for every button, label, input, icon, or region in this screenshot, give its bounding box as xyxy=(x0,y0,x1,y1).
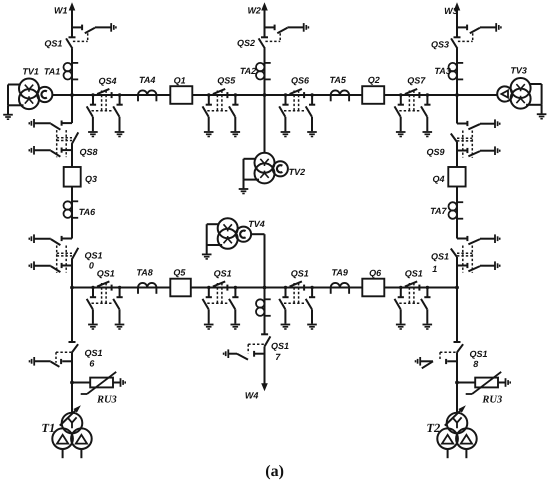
svg-text:QS1: QS1 xyxy=(214,269,232,279)
svg-text:QS1: QS1 xyxy=(97,269,115,279)
current transformer TA9 xyxy=(331,283,349,294)
svg-text:TV4: TV4 xyxy=(248,219,265,229)
svg-text:Q2: Q2 xyxy=(368,75,380,85)
svg-text:TA5: TA5 xyxy=(330,75,347,85)
disconnector QS16 xyxy=(69,342,79,352)
current transformer TA2 xyxy=(256,63,271,80)
svg-text:QS3: QS3 xyxy=(431,40,449,50)
svg-text:TA3: TA3 xyxy=(434,66,450,76)
disconnector QS8 with twin earthing switches xyxy=(29,119,78,157)
current transformer TA8 xyxy=(138,283,156,294)
feeder W2 arrow xyxy=(261,2,268,37)
svg-text:RU3: RU3 xyxy=(96,395,117,406)
disconnector QS10 with twin earthing switches xyxy=(29,234,78,272)
earthing switch branch of QS3 xyxy=(457,23,501,33)
disconnector QS11 with twin earthing switches xyxy=(451,234,500,272)
power transformer T1 xyxy=(52,405,91,458)
left column wire W1 xyxy=(71,49,73,413)
junction left column/bottom bus xyxy=(70,286,74,290)
svg-text:RU3: RU3 xyxy=(481,394,502,405)
svg-text:QS1: QS1 xyxy=(470,349,488,359)
svg-text:TA9: TA9 xyxy=(332,268,348,278)
circuit breaker Q4 xyxy=(448,167,465,187)
right column wire W3 xyxy=(456,48,458,413)
feeder W3 arrow xyxy=(454,2,461,37)
svg-text:TA2: TA2 xyxy=(240,66,256,76)
earthing switch of QS16 xyxy=(30,352,73,367)
current transformer TA5 xyxy=(331,90,349,101)
svg-text:QS1: QS1 xyxy=(271,341,289,351)
surge arrester RU3 (left) branch wire xyxy=(70,381,90,385)
svg-text:TA1: TA1 xyxy=(44,66,60,76)
svg-text:Q4: Q4 xyxy=(432,174,444,184)
current transformer TA7 xyxy=(449,202,464,219)
TV4 to W4 column wire xyxy=(251,234,264,385)
voltage transformer TV4 xyxy=(202,218,251,259)
surge arrester RU3 (right) xyxy=(466,372,511,394)
svg-text:TA6: TA6 xyxy=(79,207,96,217)
svg-text:QS1: QS1 xyxy=(44,38,62,48)
center column wire W2 xyxy=(264,48,266,152)
svg-text:W2: W2 xyxy=(247,6,261,16)
svg-text:QS8: QS8 xyxy=(80,147,98,157)
svg-text:1: 1 xyxy=(432,264,437,274)
svg-text:Q3: Q3 xyxy=(85,174,97,184)
earthing switch of QS18 xyxy=(416,352,458,368)
junction W1/top bus xyxy=(70,93,74,97)
svg-text:Q6: Q6 xyxy=(369,268,382,278)
svg-text:T1: T1 xyxy=(41,421,55,435)
disconnector QS1 (mid-right) with twin earthing switches xyxy=(279,281,317,329)
svg-text:QS6: QS6 xyxy=(291,76,310,86)
disconnector QS7 with twin earthing switches xyxy=(395,89,433,137)
current transformer TA below TV4 node xyxy=(256,299,271,316)
svg-text:TV1: TV1 xyxy=(22,67,39,77)
current transformer TA1 xyxy=(63,63,78,80)
svg-text:TV2: TV2 xyxy=(289,167,306,177)
junction W2/top bus xyxy=(263,93,267,97)
svg-text:Q1: Q1 xyxy=(174,75,186,85)
junction right column/bottom bus xyxy=(455,286,459,290)
svg-text:QS1: QS1 xyxy=(431,252,449,262)
disconnector QS1 (right) with twin earthing switches xyxy=(395,281,433,329)
svg-text:TA7: TA7 xyxy=(430,206,447,216)
disconnector QS9 with twin earthing switches xyxy=(451,119,500,157)
circuit breaker Q2 xyxy=(362,86,384,104)
circuit breaker Q5 xyxy=(170,279,191,297)
disconnector QS2 main blade xyxy=(259,33,281,48)
svg-text:(a): (a) xyxy=(265,463,284,480)
surge arrester RU3 (left) xyxy=(81,372,126,394)
circuit breaker Q3 xyxy=(64,167,81,187)
svg-text:0: 0 xyxy=(89,261,94,271)
earthing switch of QS17 xyxy=(224,344,265,359)
svg-text:QS1: QS1 xyxy=(85,250,103,260)
svg-text:QS5: QS5 xyxy=(217,76,236,86)
disconnector QS1 main blade xyxy=(66,33,88,48)
svg-text:Q5: Q5 xyxy=(173,268,186,278)
disconnector QS3 main blade xyxy=(451,33,473,48)
earthing switch branch of QS2 xyxy=(265,23,309,33)
svg-text:TA8: TA8 xyxy=(136,268,152,278)
circuit breaker Q6 xyxy=(362,279,384,297)
svg-text:TV3: TV3 xyxy=(510,65,527,75)
feeder W4 arrow xyxy=(261,383,268,391)
current transformer TA6 xyxy=(63,201,78,218)
bottom busbar wire xyxy=(72,287,457,289)
disconnector QS18 xyxy=(454,342,464,352)
power transformer T2 xyxy=(437,405,476,458)
disconnector QS5 with twin earthing switches xyxy=(203,89,241,137)
svg-text:W1: W1 xyxy=(54,5,68,15)
svg-text:QS1: QS1 xyxy=(85,348,103,358)
surge arrester RU3 (right) branch wire xyxy=(455,381,475,385)
junction center column/bottom bus xyxy=(263,286,267,290)
circuit breaker Q1 xyxy=(170,86,192,104)
top busbar wire xyxy=(52,94,497,96)
disconnector QS17 xyxy=(261,334,270,346)
svg-text:T2: T2 xyxy=(426,421,440,435)
disconnector QS4 with twin earthing switches xyxy=(87,89,125,137)
svg-text:QS2: QS2 xyxy=(237,38,255,48)
voltage transformer TV1 xyxy=(3,79,52,120)
disconnector QS6 with twin earthing switches xyxy=(279,89,317,137)
junction W3/top bus xyxy=(455,93,459,97)
voltage transformer TV3 xyxy=(497,78,546,119)
svg-text:8: 8 xyxy=(473,359,478,369)
svg-text:QS9: QS9 xyxy=(426,147,444,157)
svg-text:TA4: TA4 xyxy=(139,75,155,85)
feeder W1 arrow xyxy=(69,2,76,37)
earthing switch branch of QS1 xyxy=(72,23,116,33)
current transformer TA3 xyxy=(449,63,464,80)
disconnector QS1 (left) with twin earthing switches xyxy=(87,281,125,329)
svg-text:QS4: QS4 xyxy=(98,76,116,86)
voltage transformer TV2 xyxy=(239,153,288,194)
svg-text:QS1: QS1 xyxy=(405,268,423,278)
svg-text:QS7: QS7 xyxy=(407,75,426,85)
svg-text:W3: W3 xyxy=(444,6,458,16)
svg-text:W4: W4 xyxy=(245,390,259,400)
svg-text:QS1: QS1 xyxy=(291,269,309,279)
disconnector QS1 (mid-left) with twin earthing switches xyxy=(203,281,241,329)
current transformer TA4 xyxy=(138,90,156,101)
